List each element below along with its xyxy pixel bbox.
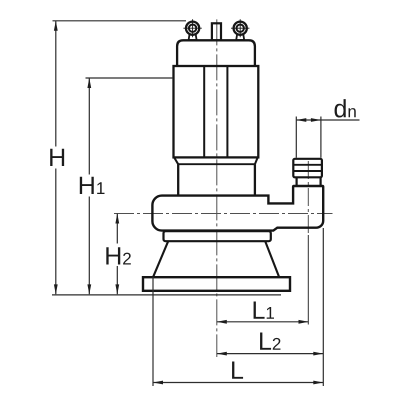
eyebolt left: [183, 19, 201, 40]
dimension H1 arrow down: [87, 284, 91, 294]
eyebolt right: [231, 19, 249, 40]
dimension dn arrow left: [296, 118, 306, 122]
dimension L2 arrow left: [217, 352, 227, 356]
dimension H2 arrow up: [115, 214, 119, 224]
ground line: [52, 294, 281, 296]
hose connector neck: [297, 177, 321, 186]
barb ridge line 1: [293, 164, 322, 166]
dimension dn extension line right: [320, 117, 322, 158]
base plate: [143, 277, 290, 291]
extension line right of L and L2 (elbow outer edge): [322, 228, 324, 386]
horizontal discharge centerline: [114, 213, 333, 215]
motor body panel line left: [203, 66, 205, 157]
dimension H1 line: [88, 78, 90, 294]
dimension H2 arrow down: [115, 284, 119, 294]
dimension L1 line: [217, 321, 309, 323]
dimension L arrow right: [313, 381, 323, 385]
dimension H2 line: [116, 214, 118, 295]
suction cone right edge: [265, 241, 279, 277]
dimension L2 line: [217, 353, 323, 355]
suction collar: [164, 231, 271, 241]
motor body panel line right: [226, 66, 228, 157]
dimension H extension line top: [53, 20, 187, 22]
dimension L2 arrow right: [313, 352, 323, 356]
dimension H1 arrow up: [87, 78, 91, 88]
motor bottom flange chamfer right: [255, 157, 258, 164]
seal housing left wall: [177, 164, 179, 195]
svg-text:L: L: [230, 357, 244, 385]
dimension dn arrow right: [311, 118, 321, 122]
svg-text:H: H: [48, 144, 66, 172]
suction cone left edge: [153, 241, 168, 277]
dimension dn line: [296, 119, 359, 121]
dimension L1 arrow right: [299, 320, 309, 324]
dimension H arrow up: [54, 21, 58, 31]
dimension H1 extension line top: [86, 77, 174, 79]
motor bottom flange underside: [178, 163, 255, 165]
dimension L line: [153, 382, 323, 384]
dimension L arrow left: [153, 381, 163, 385]
cable gland: [212, 23, 221, 40]
extension line left of L (cone bottom corner): [152, 277, 154, 386]
barb ridge line 2: [293, 170, 322, 172]
extension line from hose centerline to L1: [307, 235, 309, 325]
vertical pump centerline: [216, 19, 218, 357]
hose-connector vertical centerline: [307, 161, 309, 235]
volute casing with discharge elbow: [152, 186, 323, 231]
motor body: [174, 66, 259, 157]
top cap: [177, 40, 255, 66]
dimension H arrow down: [54, 284, 58, 294]
hose connector barb body: [293, 159, 322, 178]
motor bottom flange chamfer left: [174, 157, 178, 164]
dimension H line: [55, 21, 57, 295]
dimension L1 arrow left: [217, 320, 227, 324]
seal housing right wall: [254, 164, 256, 195]
dimension dn extension line left: [295, 117, 297, 158]
